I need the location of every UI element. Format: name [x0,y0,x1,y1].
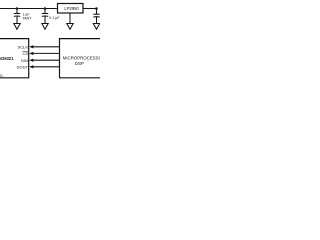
svg-text:D: D [0,74,3,78]
capacitor C2 0.1uF [42,9,48,24]
svg-text:CS: CS [22,51,28,56]
regulator U2 LP2950 box [58,4,84,14]
svg-text:0.1 µF: 0.1 µF [49,16,60,20]
svg-text:SCLK: SCLK [18,45,29,50]
svg-text:MICROPROCESSOR: MICROPROCESSOR [63,55,100,60]
overline CS [22,50,28,52]
arrowhead DOUT [29,65,33,68]
node junction C2 [44,7,47,10]
wire DOUT [33,66,60,68]
svg-text:DSP: DSP [75,61,84,66]
node junction C1 [16,7,19,10]
ground LP2950 [67,24,73,30]
svg-text:TANT: TANT [22,17,32,21]
wire CS [33,52,60,54]
wire SCLK [33,46,60,48]
svg-text:DIN: DIN [21,58,28,63]
ground C2 [42,24,48,30]
arrowhead DIN [29,59,33,62]
arrowhead SCLK [29,45,33,48]
node junction C3 [95,7,98,10]
microprocessor U3 box [60,39,101,78]
ground stub LP2950 [69,13,71,24]
wire power rail [0,8,58,10]
DAC U1 AD5021 box [0,39,29,78]
svg-text:DOUT: DOUT [17,64,29,69]
wire DIN [33,59,60,61]
svg-text:LP2950: LP2950 [64,6,79,11]
arrowhead CS [29,52,33,55]
ground C3 [93,24,99,30]
ground C1 [14,24,20,30]
capacitor C3 [93,9,99,24]
wire LP2950 output [83,8,97,10]
svg-text:AD5021: AD5021 [0,56,14,61]
capacitor C1 1uF TANT [14,9,20,24]
